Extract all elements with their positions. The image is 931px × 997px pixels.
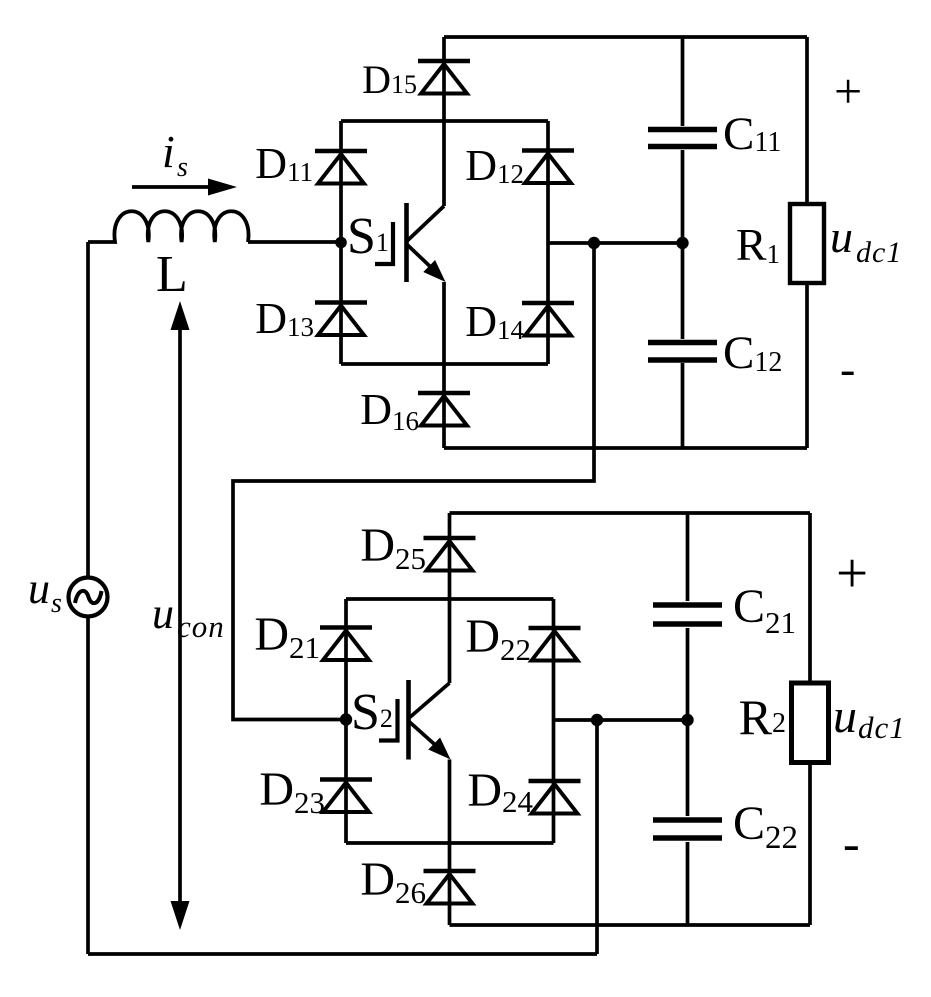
wire center rail top cell 1 (D15 branch) [442,37,446,206]
wire bridge right rail cell 1 [546,121,550,364]
diode D13 [315,303,367,336]
label u_dc1 (cell 1) [830,211,902,269]
wire interstage wire (cell 1 midpoint to S2 node) [233,243,594,720]
capacitor C21 [653,605,722,624]
wire center rail bottom cell 1 (emitter-D16-bus) [442,282,446,448]
label u_dc1 (cell 2) [833,690,906,745]
wire right dc bus cell 2 [808,513,812,925]
svg-text:s: s [177,152,188,183]
svg-text:D25: D25 [360,519,426,576]
wire capacitor rail middle segment cell 2 [686,628,690,816]
inductor L [88,211,249,242]
svg-text:u: u [152,589,174,638]
diode D26 [424,871,476,904]
node junction interstage tap cell 1 [588,237,600,249]
wire bottom dc bus cell 1 [444,446,807,450]
svg-text:D26: D26 [360,853,426,910]
svg-text:D11: D11 [255,139,313,188]
capacitor C22 [653,820,722,838]
diode D25 [424,538,476,571]
node junction capacitor midpoint cell 2 [681,714,693,726]
arrow i_s (current direction) [132,179,237,196]
diode D14 [522,303,574,336]
diode D21 [320,628,372,661]
wire capacitor rail lower segment cell 2 [686,842,690,925]
svg-text:D12: D12 [465,141,524,190]
svg-text:D22: D22 [465,610,531,667]
wire bridge right rail cell 2 [552,599,556,843]
wire center rail bottom cell 2 (emitter-D26-bus) [448,760,452,926]
wire center rail top cell 2 (D25 branch) [448,513,452,683]
wire bridge box top cell 1 [341,119,548,123]
capacitor C12 [648,343,717,361]
wire bridge box bottom cell 2 [346,841,554,845]
diode D22 [529,628,581,661]
svg-text:u: u [830,211,853,262]
svg-text:C22: C22 [733,797,798,856]
wire inductor to S1 node [248,240,341,244]
wire bridge midpoint to capacitor midpoint cell 1 [548,241,683,245]
wire capacitor rail upper segment cell 1 [681,37,685,126]
svg-text:con: con [177,609,225,644]
svg-text:+: + [836,542,868,605]
resistor R1 [790,204,824,283]
svg-text:-: - [840,343,855,394]
wire right dc bus cell 1 [805,37,809,448]
svg-text:R2: R2 [739,689,786,745]
svg-text:C11: C11 [723,108,781,160]
svg-text:S1: S1 [347,208,389,265]
wire cell 2 midpoint down to return bus [595,720,599,954]
svg-text:i: i [162,126,175,177]
arrow u_con (converter input voltage, double-headed) [171,301,190,930]
node junction return tap cell 2 [591,714,603,726]
svg-text:C12: C12 [723,327,782,379]
wire bridge left rail cell 1 [339,121,343,364]
wire capacitor rail middle segment cell 1 [681,150,685,339]
wire top dc bus cell 1 [444,35,807,39]
svg-text:u: u [28,564,50,613]
wire bridge left rail cell 2 [344,599,348,843]
svg-text:C21: C21 [733,580,796,640]
transistor S2 (IGBT) [379,680,450,760]
node junction capacitor midpoint cell 1 [676,237,688,249]
wire bridge midpoint to capacitor midpoint cell 2 [554,718,688,722]
svg-text:dc1: dc1 [858,710,906,745]
wire left rail lower (source to return bus) [86,616,90,954]
label u_con [152,589,225,644]
svg-text:L: L [156,246,188,303]
diode D24 [529,781,581,814]
resistor R2 [792,683,829,763]
svg-text:s: s [51,588,62,619]
svg-text:D16: D16 [360,385,419,436]
svg-text:-: - [843,815,860,871]
node S2 input node [340,713,352,725]
capacitor C11 [648,130,717,147]
svg-text:D24: D24 [467,764,533,819]
wire bridge box bottom cell 1 [341,362,548,366]
wire left rail upper (inductor to source) [86,242,90,578]
wire capacitor rail upper segment cell 2 [686,513,690,601]
svg-text:D13: D13 [255,294,314,343]
diode D12 [522,151,574,184]
wire bottom dc bus cell 2 [450,923,811,927]
diode D23 [320,780,372,813]
label u_s [28,564,62,619]
diode D16 [418,393,470,426]
diode D11 [315,151,367,184]
svg-text:D21: D21 [254,608,320,665]
svg-text:D14: D14 [465,297,524,346]
wire capacitor rail lower segment cell 1 [681,363,685,448]
label i_s [162,126,188,183]
svg-text:D15: D15 [362,57,417,102]
svg-text:R1: R1 [736,219,780,270]
svg-text:+: + [834,63,862,119]
svg-text:D23: D23 [259,763,325,820]
node S1 input node [335,237,347,249]
diode D15 [418,61,470,94]
wire bridge box top cell 2 [346,597,554,601]
AC source u_s [69,578,108,617]
svg-text:dc1: dc1 [856,236,902,269]
wire bottom return bus [88,952,597,956]
transistor S1 (IGBT) [375,203,444,282]
svg-text:S2: S2 [351,684,393,741]
wire top dc bus cell 2 [450,511,811,515]
svg-text:u: u [833,690,857,743]
